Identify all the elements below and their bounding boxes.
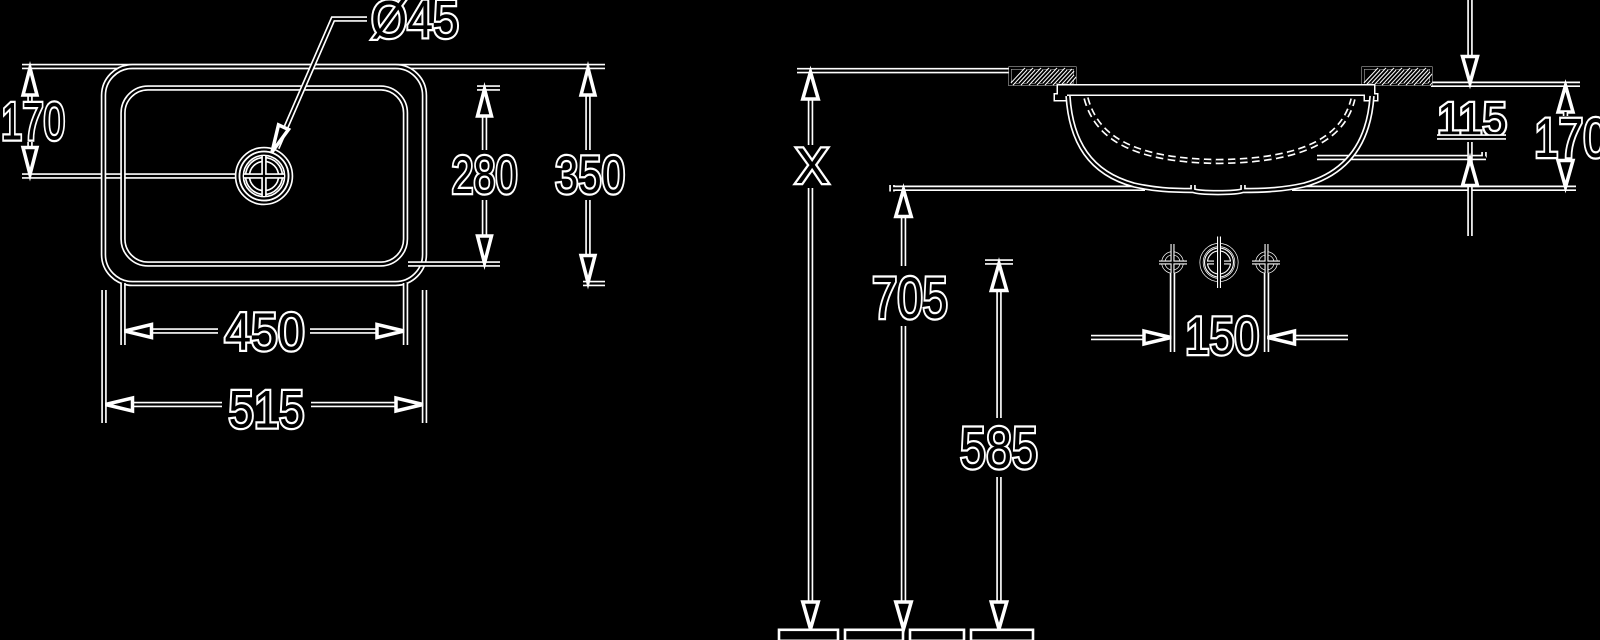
svg-text:705: 705 [872, 266, 948, 331]
drain circles [238, 150, 291, 203]
svg-text:450: 450 [225, 303, 305, 362]
dim 280 [478, 89, 492, 263]
faucet hole left [1159, 244, 1187, 278]
svg-text:150: 150 [1185, 307, 1259, 366]
bowl outer profile [1068, 96, 1372, 193]
faucet hole center [1202, 237, 1237, 289]
svg-text:515: 515 [229, 381, 305, 440]
dim 585 [985, 262, 1013, 629]
drain centerline [22, 173, 238, 179]
faucet hole right [1252, 244, 1280, 278]
svg-text:170: 170 [1534, 106, 1600, 169]
hatch block left [1010, 68, 1075, 85]
bowl inner dashed profile [1086, 98, 1353, 162]
svg-text:585: 585 [960, 416, 1038, 481]
dim 515 [106, 398, 424, 411]
dim X [803, 72, 819, 629]
svg-text:350: 350 [555, 146, 625, 205]
dim 450 [125, 325, 405, 338]
leader line to Ø45 [272, 19, 367, 152]
dim 705 [896, 190, 912, 630]
counter line right of block [1431, 82, 1580, 88]
dim 150 [1091, 331, 1348, 344]
svg-text:X: X [796, 138, 829, 194]
tick 350 bottom [583, 281, 605, 287]
outer basin rect [104, 67, 425, 284]
tick 280 top [477, 85, 500, 91]
ext lines 150 [1173, 273, 1267, 352]
drain cross [244, 156, 284, 196]
floor bar [779, 630, 1033, 640]
top extension line [22, 64, 605, 70]
dim 350 [581, 68, 595, 283]
inner basin rect [123, 88, 406, 264]
svg-text:170: 170 [1, 93, 65, 152]
top line left of block [797, 68, 1010, 74]
ext 280 bottom [408, 261, 500, 267]
ext lines 450 [123, 283, 406, 345]
rim bar [1055, 86, 1377, 101]
svg-text:Ø45: Ø45 [371, 0, 459, 50]
hatch block right [1363, 68, 1431, 85]
line y188 (705 / basin bottom ext) [892, 185, 1145, 192]
dim 170 right [1558, 86, 1573, 188]
svg-text:280: 280 [452, 146, 518, 205]
ext lines 515 [104, 290, 425, 423]
line y157 (inner bottom ext right) [1317, 152, 1486, 158]
dim 170 [23, 68, 37, 175]
dim 115 [1463, 0, 1478, 236]
